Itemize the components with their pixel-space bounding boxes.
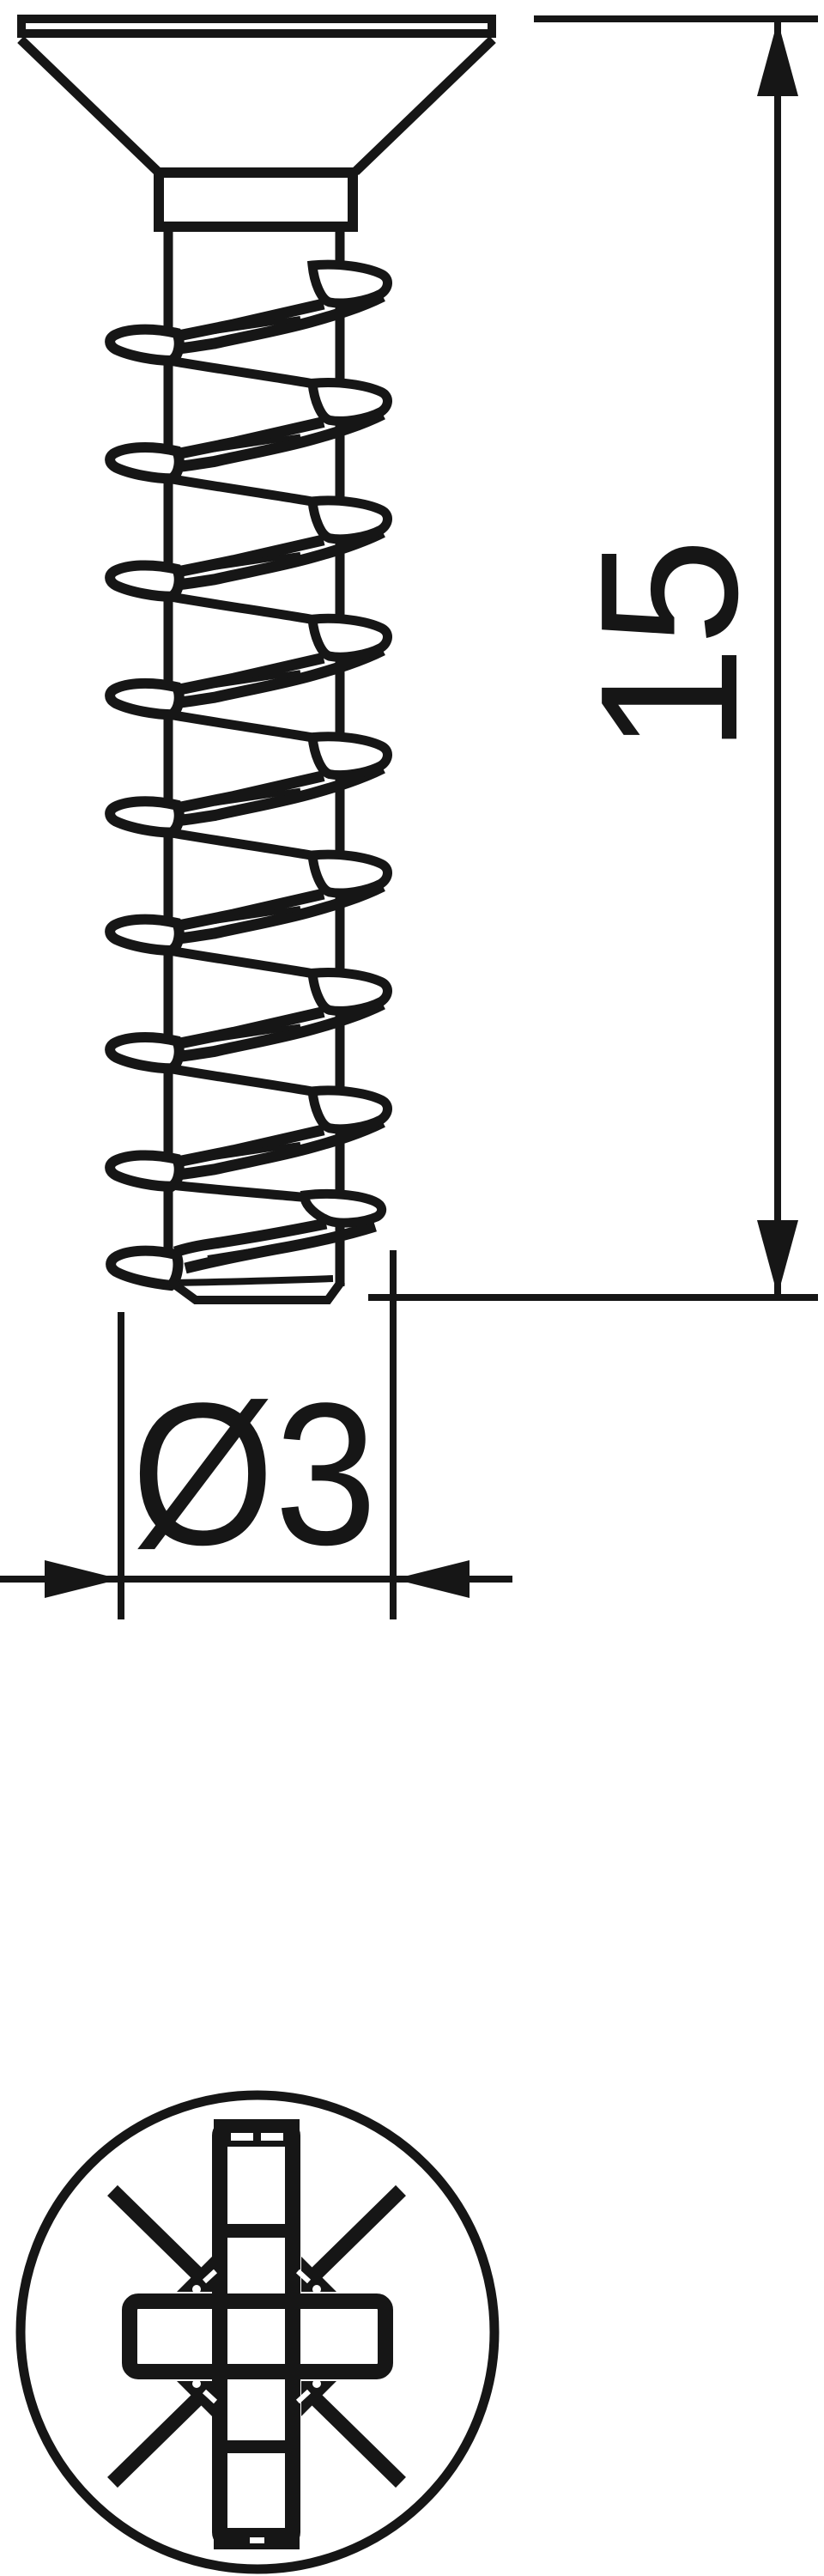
diagonal upper-left <box>112 2190 200 2276</box>
arrowhead down (15) <box>757 1220 798 1296</box>
screw tip outline <box>170 1281 342 1300</box>
vertical slot lower rung <box>214 2440 300 2453</box>
shaft right line <box>336 232 345 1286</box>
extension line left (diameter) <box>118 1312 124 1619</box>
screw head top face <box>21 19 492 33</box>
countersink left slant <box>21 39 158 172</box>
wedge dot lower-left <box>192 2379 201 2388</box>
diagonal lower-right <box>313 2397 401 2482</box>
wedge slit upper-left <box>204 2271 215 2281</box>
dimension line diameter <box>0 1576 512 1583</box>
wedge slit lower-right <box>298 2391 309 2402</box>
diagonal lower-left <box>112 2397 200 2482</box>
arrowhead up (15) <box>757 21 798 96</box>
vertical slot bottom cap <box>214 2528 300 2549</box>
wedge dot upper-left <box>192 2285 201 2293</box>
svg-text:15: 15 <box>560 538 779 753</box>
wedge dot lower-right <box>312 2379 321 2388</box>
thread turn 5 <box>110 715 387 833</box>
shaft left line <box>164 232 173 1255</box>
arrowhead left-pointing (diameter) <box>394 1560 470 1598</box>
thread turn 1 <box>110 264 387 361</box>
vertical slot upper rung <box>214 2224 300 2238</box>
corner wedge upper-left <box>177 2257 212 2292</box>
thread turn 9 (partial) <box>111 1185 382 1285</box>
corner wedge upper-right <box>301 2257 336 2292</box>
thread turn 6 <box>110 833 387 951</box>
extension line right (diameter) <box>390 1250 397 1619</box>
top cap dash left <box>231 2133 253 2141</box>
wedge slit lower-left <box>204 2391 215 2402</box>
recess vertical slot <box>220 2127 293 2541</box>
svg-text:Ø3: Ø3 <box>131 1361 377 1588</box>
wedge dot upper-right <box>312 2285 321 2293</box>
thread turn 7 <box>110 951 387 1068</box>
extension line bottom (15) <box>368 1294 818 1301</box>
screw tip chamfer facet <box>172 1279 333 1283</box>
thread turn 2 <box>110 361 387 478</box>
arrowhead right-pointing (diameter) <box>45 1560 120 1598</box>
extension line top (15) <box>534 15 818 22</box>
diagonal upper-right <box>313 2190 401 2276</box>
thread turn 4 <box>110 597 387 714</box>
vertical slot top cap <box>214 2119 300 2147</box>
head outline circle <box>21 2095 494 2569</box>
recess horizontal slot <box>130 2301 385 2372</box>
countersink right slant <box>355 39 493 172</box>
top cap dash right <box>261 2133 283 2141</box>
dimension line 15 <box>774 19 781 1297</box>
thread turn 3 <box>110 479 387 597</box>
wedge slit upper-right <box>298 2271 309 2281</box>
head neck <box>159 173 353 227</box>
corner wedge lower-right <box>301 2381 336 2416</box>
corner wedge lower-left <box>177 2381 212 2416</box>
bottom cap dash <box>250 2537 264 2543</box>
thread turn 8 <box>110 1069 387 1187</box>
